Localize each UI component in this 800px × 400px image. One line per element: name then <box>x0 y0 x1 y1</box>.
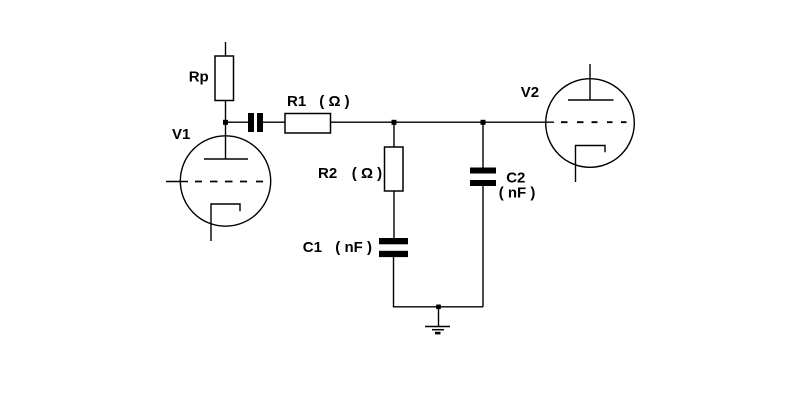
wire capacitor to R1 <box>263 121 285 123</box>
tube V2 plate lead <box>589 64 591 100</box>
ground symbol <box>425 326 450 328</box>
wire C1 bottom to ground rail <box>394 257 484 307</box>
wire node A down to V1 plate <box>225 122 227 159</box>
svg-text:( Ω ): ( Ω ) <box>352 165 382 182</box>
wire node C down to C2 <box>482 122 484 167</box>
svg-text:C1: C1 <box>303 239 322 256</box>
node C junction dot <box>481 120 486 125</box>
wire R1 to V2 grid <box>331 121 555 123</box>
svg-text:V2: V2 <box>521 84 539 101</box>
resistor Rp <box>215 56 234 101</box>
capacitor C2 plate 2 <box>470 180 496 186</box>
resistor R2 top lead <box>393 122 395 147</box>
wire Rp bottom to node A <box>225 101 227 123</box>
capacitor C2 plate 1 <box>470 168 496 174</box>
capacitor coupling (unnamed) plate 2 <box>257 113 263 132</box>
svg-text:( nF ): ( nF ) <box>499 184 536 201</box>
tube V1 envelope <box>180 136 270 226</box>
capacitor coupling (unnamed) plate 1 <box>248 113 254 132</box>
svg-text:R2: R2 <box>318 165 337 182</box>
tube V1 grid dashed line <box>195 181 263 183</box>
tube V2 grid dashed line <box>561 121 627 123</box>
ground stem <box>438 307 440 327</box>
tube V2 cathode <box>576 146 606 183</box>
node A junction dot <box>223 120 228 125</box>
wire C2 bottom to ground rail <box>482 186 484 307</box>
tube V1 grid lead <box>166 181 188 183</box>
svg-text:V1: V1 <box>172 126 190 143</box>
capacitor C1 plate 1 <box>379 238 408 244</box>
tube V2 plate bar <box>568 99 614 101</box>
svg-text:( Ω ): ( Ω ) <box>319 93 349 110</box>
svg-text:Rp: Rp <box>189 68 209 85</box>
node B junction dot <box>392 120 397 125</box>
tube V2 envelope <box>546 79 635 168</box>
node D junction dot <box>436 305 441 310</box>
capacitor C1 plate 2 <box>379 251 408 257</box>
resistor R2 <box>385 147 404 191</box>
resistor R1 <box>285 114 331 134</box>
tube V1 plate bar <box>204 158 248 160</box>
svg-text:( nF ): ( nF ) <box>335 239 372 256</box>
tube V1 cathode <box>211 204 240 241</box>
wire R2 bottom to C1 <box>393 191 395 238</box>
wire node A to coupling capacitor <box>226 121 249 123</box>
svg-text:R1: R1 <box>287 93 306 110</box>
wire Rp top lead <box>225 42 227 56</box>
